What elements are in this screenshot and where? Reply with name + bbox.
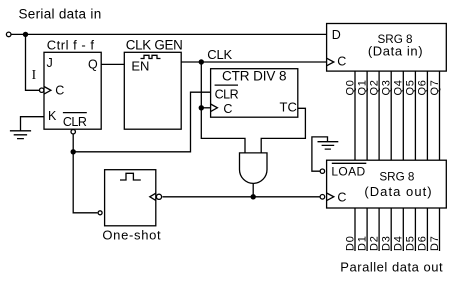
bubble CLR output U1 bbox=[71, 130, 75, 134]
overline LOAD U6 bbox=[332, 162, 367, 164]
wire Q4 bbox=[402, 71, 404, 160]
clock waveform symbol U2 bbox=[141, 55, 161, 58]
wire Q5 bbox=[414, 71, 416, 160]
overline CLR U3 bbox=[215, 84, 238, 86]
svg-text:C: C bbox=[337, 54, 346, 68]
svg-text:One-shot: One-shot bbox=[102, 227, 161, 242]
svg-text:TC: TC bbox=[280, 99, 297, 114]
svg-text:Serial data in: Serial data in bbox=[19, 6, 102, 21]
box U5 SRG 8 data in bbox=[327, 24, 447, 72]
wire D5 bbox=[414, 208, 416, 251]
wire D4 bbox=[402, 208, 404, 251]
wire D0 bbox=[354, 208, 356, 251]
svg-text:SRG 8: SRG 8 bbox=[379, 171, 414, 184]
svg-text:Q2: Q2 bbox=[368, 79, 380, 95]
wire AND node to one-shot trigger and SRG out C bbox=[163, 196, 320, 198]
svg-text:D6: D6 bbox=[417, 235, 429, 251]
junction CLR net bbox=[71, 149, 76, 154]
AND gate G1 bbox=[240, 153, 268, 183]
box U3 CTR DIV 8 bbox=[211, 69, 298, 118]
svg-text:Parallel data out: Parallel data out bbox=[340, 259, 443, 274]
terminal serial input bbox=[6, 32, 11, 37]
wire D1 bbox=[366, 208, 368, 251]
clock triangle C input U1 bbox=[44, 87, 51, 95]
clock triangle C input U6 bbox=[327, 193, 334, 201]
svg-text:I: I bbox=[32, 67, 37, 82]
box U6 SRG 8 data out bbox=[327, 160, 447, 208]
svg-text:LOAD: LOAD bbox=[331, 164, 365, 178]
svg-text:EN: EN bbox=[131, 58, 149, 73]
svg-text:Q7: Q7 bbox=[429, 79, 441, 95]
wire Q6 bbox=[426, 71, 428, 160]
svg-text:Q1: Q1 bbox=[356, 79, 368, 95]
svg-text:D5: D5 bbox=[405, 235, 417, 251]
ground GND1 bbox=[10, 131, 31, 139]
svg-text:D4: D4 bbox=[393, 235, 405, 251]
junction CLK node bbox=[199, 59, 204, 64]
wire CLR net vertical bbox=[72, 134, 74, 152]
wire Q1 bbox=[366, 71, 368, 160]
box U2 CLK GEN bbox=[124, 52, 181, 129]
wire Q3 bbox=[390, 71, 392, 160]
svg-text:J: J bbox=[47, 56, 53, 70]
wire CLK down to CTR C and AND input bbox=[201, 62, 245, 153]
junction AND output node bbox=[251, 194, 256, 199]
wire TC to AND input bbox=[261, 108, 305, 153]
bubble LOAD input bbox=[320, 169, 324, 173]
svg-text:CLR: CLR bbox=[63, 115, 87, 129]
svg-text:Q0: Q0 bbox=[344, 79, 356, 95]
wire D2 bbox=[378, 208, 380, 251]
svg-text:Q: Q bbox=[88, 58, 98, 72]
svg-text:Ctrl f - f: Ctrl f - f bbox=[47, 38, 95, 53]
wire CLK GEN output bbox=[181, 61, 326, 63]
wire Q2 bbox=[378, 71, 380, 160]
svg-text:C: C bbox=[337, 191, 346, 205]
svg-text:D0: D0 bbox=[344, 235, 356, 251]
overline CLR U1 bbox=[63, 112, 87, 114]
svg-text:Q4: Q4 bbox=[393, 79, 405, 95]
wire serial down to C of U1 bbox=[26, 34, 40, 90]
svg-text:C: C bbox=[55, 84, 64, 98]
svg-text:Q6: Q6 bbox=[417, 79, 429, 95]
junction serial input bbox=[23, 32, 28, 37]
bubble one-shot output bbox=[98, 211, 102, 215]
svg-text:D1: D1 bbox=[356, 235, 368, 251]
svg-text:(Data in): (Data in) bbox=[368, 43, 423, 58]
svg-text:K: K bbox=[48, 109, 57, 123]
svg-text:D7: D7 bbox=[429, 235, 441, 251]
triangle one-shot trigger bbox=[150, 193, 156, 200]
junction CTR C input bbox=[199, 105, 204, 110]
wire D6 bbox=[426, 208, 428, 251]
svg-text:Q5: Q5 bbox=[405, 79, 417, 95]
svg-text:D3: D3 bbox=[381, 235, 393, 251]
clock triangle C input U5 bbox=[327, 58, 334, 66]
flip-flop U1 Ctrl f-f body bbox=[44, 52, 101, 129]
svg-text:D2: D2 bbox=[368, 235, 380, 251]
wire CLR net to one-shot output bbox=[73, 152, 97, 213]
wire CLR net to CTR CLR bbox=[73, 92, 210, 152]
svg-text:(Data out): (Data out) bbox=[364, 184, 432, 199]
wire to CTR C bbox=[201, 107, 210, 109]
wire serial data to D bbox=[11, 33, 326, 35]
wire D7 bbox=[439, 208, 441, 251]
bubble one-shot trigger bbox=[156, 194, 161, 199]
svg-text:CLK GEN: CLK GEN bbox=[126, 37, 183, 52]
wire D3 bbox=[390, 208, 392, 251]
wire Q0 bbox=[354, 71, 356, 160]
box U4 one-shot bbox=[105, 170, 156, 226]
svg-text:C: C bbox=[223, 102, 232, 116]
wire AND output bbox=[252, 184, 254, 197]
wire Q7 bbox=[439, 71, 441, 160]
svg-text:CLR: CLR bbox=[215, 87, 239, 101]
svg-text:CTR DIV 8: CTR DIV 8 bbox=[222, 69, 286, 84]
wire K to ground bbox=[21, 117, 45, 131]
ground GND2 bbox=[318, 142, 339, 149]
bubble C input U1 bbox=[40, 88, 44, 92]
pulse symbol U4 bbox=[120, 173, 141, 180]
wire gnd elbow to LOAD bbox=[312, 137, 328, 171]
svg-text:CLK: CLK bbox=[207, 47, 232, 62]
svg-text:D: D bbox=[332, 28, 341, 42]
clock triangle C input U3 bbox=[211, 104, 218, 112]
bubble C input U6 bbox=[320, 195, 325, 200]
wire Q to CLK GEN EN bbox=[101, 63, 124, 65]
svg-text:Q3: Q3 bbox=[381, 79, 393, 95]
